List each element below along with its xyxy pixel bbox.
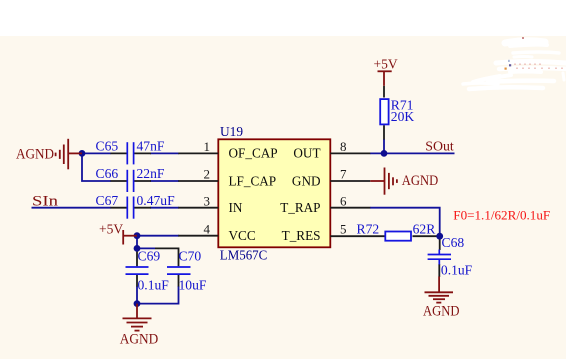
svg-text:AGND: AGND bbox=[402, 173, 439, 189]
svg-text:62R: 62R bbox=[413, 222, 437, 237]
svg-text:AGND: AGND bbox=[120, 332, 159, 348]
svg-text:AGND: AGND bbox=[16, 146, 54, 162]
svg-text:6: 6 bbox=[340, 193, 347, 208]
svg-text:C66: C66 bbox=[96, 166, 119, 181]
svg-text:22nF: 22nF bbox=[137, 166, 165, 181]
svg-text:10uF: 10uF bbox=[179, 277, 207, 292]
svg-text:C70: C70 bbox=[179, 248, 202, 263]
svg-text:U19: U19 bbox=[220, 124, 243, 139]
svg-text:+5V: +5V bbox=[99, 222, 123, 237]
svg-text:SOut: SOut bbox=[425, 140, 454, 155]
svg-text:1: 1 bbox=[204, 139, 211, 154]
svg-text:8: 8 bbox=[340, 139, 347, 154]
svg-text:C69: C69 bbox=[138, 248, 161, 263]
svg-text:4: 4 bbox=[204, 221, 211, 236]
svg-text:SIn: SIn bbox=[32, 194, 59, 210]
svg-text:OF_CAP: OF_CAP bbox=[229, 146, 278, 161]
svg-text:T_RES: T_RES bbox=[282, 228, 321, 243]
svg-text:7: 7 bbox=[340, 167, 347, 182]
svg-text:0.1uF: 0.1uF bbox=[138, 277, 170, 292]
svg-text:0.1uF: 0.1uF bbox=[441, 262, 473, 277]
svg-text:0.47uF: 0.47uF bbox=[137, 193, 176, 208]
svg-text:T_RAP: T_RAP bbox=[280, 200, 320, 215]
svg-text:C65: C65 bbox=[96, 139, 119, 154]
svg-text:AGND: AGND bbox=[423, 303, 460, 319]
svg-text:3: 3 bbox=[204, 193, 211, 208]
svg-text:47nF: 47nF bbox=[137, 139, 165, 154]
svg-text:C67: C67 bbox=[96, 193, 119, 208]
svg-text:OUT: OUT bbox=[293, 146, 320, 161]
svg-text:LM567C: LM567C bbox=[220, 248, 268, 263]
svg-text:LF_CAP: LF_CAP bbox=[229, 173, 277, 188]
svg-text:2: 2 bbox=[204, 167, 211, 182]
svg-text:20K: 20K bbox=[391, 109, 415, 124]
svg-text:+5V: +5V bbox=[374, 56, 398, 71]
svg-text:C68: C68 bbox=[442, 235, 465, 250]
svg-text:5: 5 bbox=[340, 222, 347, 237]
svg-text:VCC: VCC bbox=[229, 228, 256, 243]
svg-text:R72: R72 bbox=[357, 222, 380, 237]
svg-text:IN: IN bbox=[229, 200, 243, 215]
svg-text:GND: GND bbox=[292, 173, 321, 188]
svg-text:F0=1.1/62R/0.1uF: F0=1.1/62R/0.1uF bbox=[453, 208, 550, 223]
